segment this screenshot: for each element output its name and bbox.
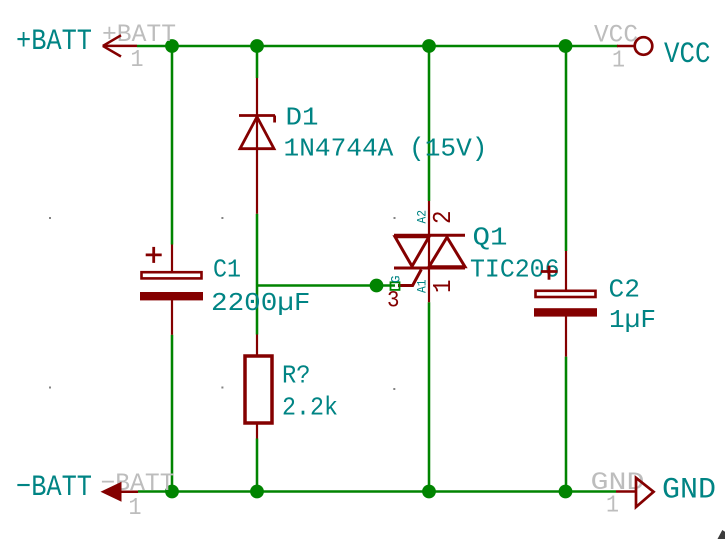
svg-text:1: 1: [131, 47, 144, 74]
capacitor C2 pins: [565, 251, 567, 290]
svg-text:TIC206: TIC206: [470, 255, 560, 285]
svg-text:C1: C1: [213, 255, 241, 285]
svg-text:2: 2: [428, 211, 458, 225]
capacitor C2 plates: [536, 291, 596, 297]
svg-text:GND: GND: [662, 474, 716, 508]
svg-text:+BATT: +BATT: [16, 25, 92, 59]
svg-text:R?: R?: [282, 360, 311, 390]
svg-text:−BATT: −BATT: [16, 471, 92, 505]
svg-text:3: 3: [387, 288, 400, 314]
power symbol VCC circle: [617, 45, 635, 48]
svg-text:G: G: [389, 276, 404, 284]
junction top D1: [250, 39, 264, 53]
wire R lower: [256, 439, 259, 492]
svg-text:A1: A1: [415, 279, 430, 293]
svg-text:Q1: Q1: [473, 223, 508, 253]
junction gate wire: [370, 279, 384, 293]
diode D1 pins: [256, 78, 258, 214]
resistor R? body: [245, 356, 272, 423]
svg-text:1N4744A (15V): 1N4744A (15V): [284, 134, 488, 164]
wire C1 branch upper: [171, 46, 174, 245]
resistor R? pins: [256, 335, 258, 357]
junction bottom C1: [165, 485, 179, 499]
triac Q1 body: [394, 235, 465, 285]
wire C2 branch lower: [565, 357, 568, 492]
junction bottom C2: [559, 485, 573, 499]
wire bottom rail -BATT to GND: [138, 490, 616, 493]
power symbol GND arrow: [616, 490, 636, 493]
capacitor C1 plus sign: [146, 247, 162, 263]
svg-text:D1: D1: [286, 103, 319, 133]
wire node A to R: [256, 286, 259, 335]
triac Q1 pins: [428, 201, 430, 302]
capacitor C1 plates: [142, 272, 202, 278]
wire D1 to node A: [256, 214, 259, 286]
gate pin end square: [391, 282, 400, 290]
svg-text:1µF: 1µF: [609, 305, 656, 335]
svg-text:A2: A2: [415, 210, 430, 224]
svg-text:2.2k: 2.2k: [282, 393, 338, 423]
wire C1 branch lower: [171, 335, 174, 492]
junction top Q1: [422, 39, 436, 53]
svg-text:2200µF: 2200µF: [211, 288, 311, 318]
wire Q1 branch lower: [428, 302, 431, 491]
wire gate horizontal: [257, 284, 395, 287]
svg-text:1: 1: [428, 280, 458, 294]
capacitor C2 plus sign: [541, 266, 558, 280]
svg-text:C2: C2: [609, 275, 641, 305]
junction top C1: [165, 39, 179, 53]
capacitor C1 pins: [171, 245, 173, 272]
wire D1 branch upper: [256, 46, 259, 78]
wire top rail +BATT to VCC: [137, 45, 618, 48]
svg-text:1: 1: [612, 48, 625, 75]
power symbol -BATT arrow: [101, 482, 122, 502]
junction top C2: [559, 39, 573, 53]
junction bottom Q1: [422, 485, 436, 499]
junction bottom R: [250, 485, 264, 499]
diode D1 zener symbol: [239, 116, 275, 149]
svg-text:1: 1: [129, 495, 142, 522]
power symbol +BATT arrow: [103, 35, 137, 56]
svg-text:VCC: VCC: [664, 38, 711, 72]
svg-text:1: 1: [606, 493, 619, 520]
wire Q1 branch upper: [428, 46, 431, 201]
wire C2 branch upper: [565, 46, 568, 251]
